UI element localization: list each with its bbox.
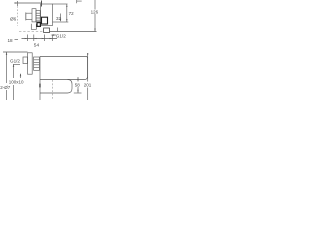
small dark blob on left edge (39, 84, 41, 88)
nut (34, 57, 40, 70)
ext line top for 72 (53, 3, 68, 5)
supply stub (23, 57, 28, 64)
lever arm line (53, 21, 69, 23)
U shape below plate (31, 24, 36, 30)
small note 18 (8, 38, 14, 43)
svg-text:Ø6: Ø6 (10, 17, 17, 22)
ext line y93 right (74, 92, 82, 94)
dashed outlet centerline bottom (52, 80, 54, 100)
right tick (41, 1, 43, 7)
126 dim line (94, 0, 96, 32)
flange (28, 53, 33, 74)
top dimension line (15, 2, 43, 4)
left tick (17, 1, 19, 6)
left dim line 1 (6, 52, 8, 100)
nut (32, 9, 36, 22)
72 text (69, 11, 75, 16)
126 bottom arrow (94, 29, 95, 32)
G1/2 text (10, 58, 20, 63)
72 dim line (66, 4, 68, 22)
lever block (dark) (42, 17, 48, 24)
126 text (91, 9, 99, 14)
58 text (75, 82, 81, 87)
thread block (36, 11, 40, 22)
small housing rect (44, 28, 50, 33)
outlet tube (26, 13, 32, 19)
100x10 text (9, 80, 24, 85)
thread rungs (36, 13, 40, 20)
54 ext ticks (28, 35, 53, 42)
G1/2 mid text (56, 33, 66, 38)
left edge full line (39, 57, 41, 101)
32 arrow (60, 14, 62, 22)
201 dim line (87, 53, 89, 100)
dash-dot centerline (19, 31, 44, 33)
svg-text:72: 72 (69, 11, 75, 16)
54 dim line (22, 38, 58, 40)
32 text (56, 16, 62, 21)
svg-text:2-Ø7: 2-Ø7 (0, 85, 11, 90)
nut stripes (34, 60, 40, 68)
58 dim line (77, 77, 79, 93)
long center line to right (50, 31, 97, 33)
technical dimension drawing of wall-mounted valve/spout (0, 0, 100, 100)
left dim line 2 (13, 64, 15, 100)
svg-text:54: 54 (34, 43, 40, 49)
gamma tick top right (77, 0, 82, 3)
dashed outlet centerline (17, 3, 19, 26)
54 text (34, 43, 40, 49)
up arrow at flange bottom (20, 73, 21, 76)
svg-text:126: 126 (91, 9, 99, 14)
svg-text:G1/2: G1/2 (10, 58, 20, 63)
spout nose (40, 80, 72, 94)
ext line top left (3, 51, 28, 53)
72 arrows (66, 4, 67, 22)
svg-text:G1/2: G1/2 (56, 33, 66, 38)
spout body (40, 57, 88, 80)
svg-text:100x10: 100x10 (9, 80, 24, 85)
wall plate (41, 4, 53, 26)
diameter text (10, 17, 17, 22)
G1/2 mid leader arrow (51, 34, 55, 36)
svg-text:18: 18 (8, 38, 14, 43)
svg-text:201: 201 (84, 82, 92, 87)
tick above line (57, 28, 59, 32)
201 text (84, 82, 92, 87)
dark block (37, 23, 40, 27)
short ext from centerline (14, 64, 21, 66)
svg-text:32: 32 (56, 16, 62, 21)
svg-text:58: 58 (75, 82, 81, 87)
2-diam text (0, 85, 11, 90)
